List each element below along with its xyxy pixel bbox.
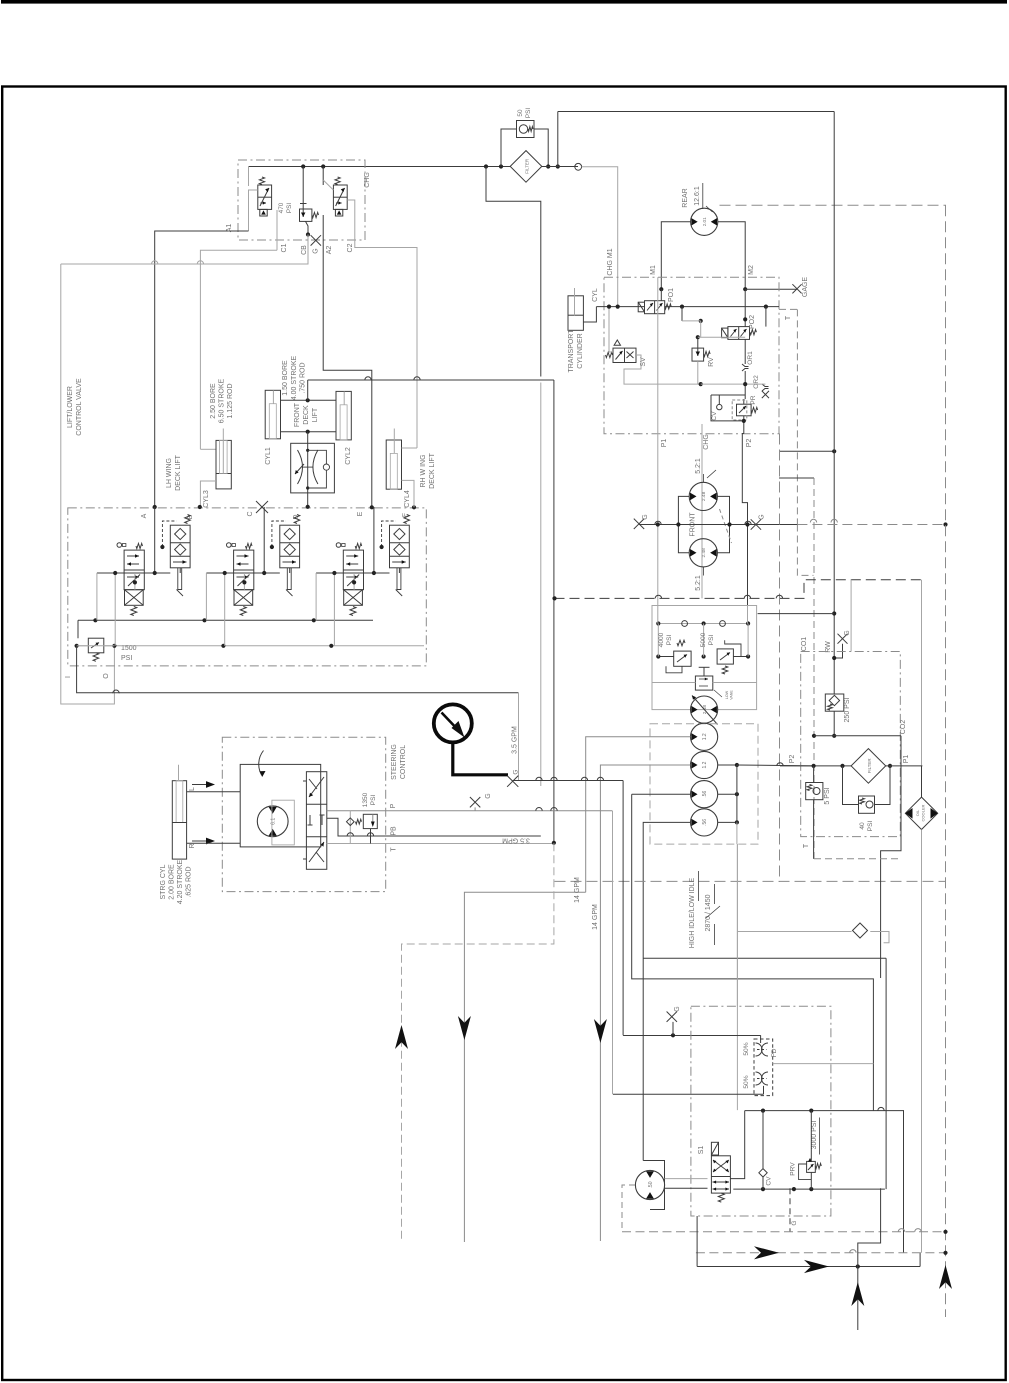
svg-text:1.2: 1.2: [702, 733, 708, 740]
arrow supply header: [754, 1246, 779, 1259]
wire pump inlet 1.2a: [586, 737, 691, 893]
arrow suction B: [594, 1019, 607, 1043]
svg-text:.56: .56: [702, 819, 708, 826]
wire idle sense line: [737, 931, 851, 933]
test point GAGE: [792, 284, 801, 293]
filter bypass 40 PSI: [843, 766, 859, 805]
motor FRONT 1: [689, 482, 717, 510]
svg-text:CONTROL: CONTROL: [400, 745, 407, 779]
spring top: [136, 543, 143, 548]
svg-text:GAGE: GAGE: [802, 277, 809, 298]
wire P out: [327, 810, 613, 812]
wire bypass loop: [501, 129, 517, 167]
svg-text:5.2:1: 5.2:1: [695, 458, 702, 474]
svg-text:6.50 STROKE: 6.50 STROKE: [219, 378, 226, 423]
wire rear motor case drain dashed: [720, 204, 947, 206]
main return filter line: [780, 765, 851, 767]
svg-text:1.125 ROD: 1.125 ROD: [227, 383, 234, 418]
wire P1 down to pumps: [657, 434, 659, 606]
wire from pump rail down: [736, 844, 738, 1006]
test point G return: [838, 634, 848, 644]
svg-text:3.5 GPM: 3.5 GPM: [502, 837, 530, 844]
node PO2 out: [743, 317, 747, 321]
svg-text:I: I: [65, 676, 72, 678]
relief rail: [658, 623, 748, 625]
wire CB down-left rail y=264: [61, 235, 308, 265]
pump gear 1.2 a: [691, 723, 718, 750]
wire FD top: [760, 1035, 762, 1043]
section wiring: [373, 507, 375, 573]
wire suction A to bottom: [464, 892, 585, 1242]
wire pump inlet .56a: [632, 793, 691, 795]
wire S1 return rail: [733, 1188, 885, 1190]
arrow L: [192, 784, 206, 786]
section wiring: [154, 507, 156, 573]
wire pump inlet 1.2b: [600, 765, 690, 1241]
node charge tap 1: [301, 164, 305, 168]
wire steering G rail H1: [513, 780, 623, 782]
dashed T return rail: [814, 858, 898, 860]
wire PRV up: [810, 1111, 812, 1162]
svg-text:.750 ROD: .750 ROD: [300, 362, 307, 393]
svg-text:LIFT: LIFT: [312, 407, 319, 422]
crossed box: [234, 590, 253, 606]
svg-text:50%: 50%: [743, 1075, 750, 1088]
pump housing box: [652, 606, 757, 710]
svg-text:3000 PSI: 3000 PSI: [811, 1121, 818, 1150]
wire P1 into housing: [657, 606, 659, 624]
wire 250 out: [833, 711, 835, 736]
check valve assembly: [390, 525, 410, 568]
arrow return line: [804, 1260, 829, 1273]
svg-text:COOLER: COOLER: [921, 804, 926, 821]
arrow right dashed riser: [939, 1265, 952, 1289]
node T x834: [832, 449, 836, 453]
svg-text:RV: RV: [708, 357, 715, 367]
svg-text:CHG M1: CHG M1: [607, 248, 614, 275]
wire OR1 down: [744, 371, 746, 399]
dashed G stub: [789, 1188, 791, 1232]
relief valve 1500 PSI: [88, 638, 104, 653]
pilot cap: [227, 543, 232, 548]
svg-text:VANE: VANE: [730, 690, 734, 700]
relief 1350 PSI assembly: [349, 811, 351, 844]
flow divider FD: [754, 1039, 773, 1096]
crossed box: [344, 590, 363, 606]
svg-text:A: A: [141, 513, 148, 518]
svg-text:14 GPM: 14 GPM: [592, 904, 599, 930]
wire cooler drop: [921, 580, 923, 766]
spring top: [246, 543, 253, 548]
ball check left: [682, 621, 688, 627]
nodes P rail: [93, 618, 97, 622]
svg-text:1350: 1350: [362, 792, 369, 807]
svg-text:470: 470: [278, 202, 285, 213]
svg-text:CO1: CO1: [801, 637, 808, 652]
wire tank drop right: [518, 693, 520, 781]
servo control: [699, 666, 710, 668]
variable arrow: [692, 696, 718, 725]
node RV top: [696, 335, 700, 339]
steering boundary: [222, 737, 385, 891]
node G bottom: [671, 1033, 675, 1037]
svg-text:PSI: PSI: [708, 635, 715, 646]
svg-text:PRV: PRV: [790, 1162, 797, 1176]
wire CYL3 feed from C1: [200, 250, 277, 449]
wire PO2 feed: [765, 307, 767, 327]
test point G gauge: [507, 776, 518, 787]
dashed boundary right x947: [945, 205, 947, 1317]
node T junction: [552, 841, 556, 845]
steering unit outer box: [240, 764, 321, 847]
gear pump box dashed: [650, 724, 758, 844]
wire top rail y=111: [558, 111, 834, 113]
node CB junction: [306, 232, 310, 236]
node front deck top: [306, 398, 310, 402]
port P1 riser: [657, 277, 659, 433]
svg-text:5000: 5000: [700, 632, 707, 647]
housing mid line: [652, 682, 695, 684]
solenoid valve body: [124, 550, 144, 590]
dashed case drain boundary x779: [779, 434, 781, 883]
svg-text:OIL: OIL: [915, 809, 920, 816]
node suction header start: [552, 596, 556, 600]
fan circuit boundary: [691, 1006, 831, 1216]
svg-text:2.00 BORE: 2.00 BORE: [169, 864, 176, 900]
node supply header: [943, 1251, 947, 1255]
node lower rail: [699, 382, 703, 386]
svg-text:CYL1: CYL1: [265, 447, 272, 465]
wire motor to valve a: [665, 1178, 708, 1180]
wire T rail y=645.5: [77, 645, 424, 647]
check out wire: [179, 568, 181, 573]
svg-text:2.48: 2.48: [701, 491, 707, 501]
flow control FC1 box: [291, 443, 335, 493]
svg-text:4000: 4000: [658, 632, 665, 647]
orifice OR1: [742, 364, 749, 367]
svg-text:CB: CB: [301, 245, 308, 255]
check CV fan: [762, 1111, 764, 1169]
wire PRV down: [810, 1172, 812, 1189]
svg-text:FILTER: FILTER: [867, 758, 872, 773]
svg-text:DECK LIFT: DECK LIFT: [429, 452, 436, 489]
dashed tank header bottom: [622, 1231, 946, 1233]
svg-text:PB: PB: [391, 826, 398, 836]
svg-text:PSI: PSI: [121, 655, 132, 662]
valve S1: [711, 1156, 730, 1193]
svg-text:CHG: CHG: [703, 434, 710, 450]
svg-text:PO1: PO1: [668, 288, 675, 302]
wire RV out: [697, 361, 699, 384]
svg-text:12.6:1: 12.6:1: [694, 186, 701, 206]
svg-text:PSI: PSI: [867, 821, 874, 832]
wire G line bottom: [623, 1035, 761, 1037]
wire C1 stub: [276, 210, 278, 250]
filter F1: [510, 151, 542, 183]
wire fan supply drop: [643, 1160, 650, 1162]
svg-text:40: 40: [859, 822, 866, 830]
transport manifold boundary: [604, 277, 779, 434]
node G dashed end: [943, 522, 947, 526]
check spring: [404, 515, 410, 524]
wire high idle loop: [632, 794, 874, 1110]
svg-text:FRONT: FRONT: [294, 402, 301, 427]
wire cooler down: [921, 830, 923, 1253]
svg-text:M2: M2: [748, 265, 755, 275]
node front deck bottom: [306, 430, 310, 434]
relief valve 470 PSI: [302, 167, 304, 210]
wire front deck bottom rail: [281, 431, 337, 433]
spring bottom: [131, 607, 137, 616]
node on charge gallery: [484, 164, 488, 168]
node charge tap 2: [321, 164, 325, 168]
wire CYL3 rod port: [200, 448, 216, 450]
ports on lift valve boundary: [153, 505, 157, 509]
svg-text:REAR: REAR: [682, 188, 689, 207]
svg-text:O: O: [103, 673, 110, 679]
wire C2 from V2: [347, 200, 417, 448]
svg-text:.56: .56: [702, 791, 708, 798]
valve PO2: [728, 327, 750, 340]
valve V2 top lead: [322, 167, 324, 186]
dashed case line right: [797, 525, 813, 576]
crossed box: [125, 590, 144, 606]
svg-text:CYL4: CYL4: [404, 490, 411, 508]
svg-text:PSI: PSI: [286, 203, 293, 214]
svg-text:PR: PR: [750, 395, 757, 404]
check out wire: [398, 568, 400, 573]
node M1: [659, 287, 663, 291]
spring S1: [718, 1193, 724, 1202]
svg-text:FD: FD: [771, 1048, 778, 1057]
svg-text:RH W ING: RH W ING: [420, 454, 427, 487]
wire bottom stub with arrow: [857, 1267, 859, 1331]
wire R line: [187, 842, 241, 844]
wire CO2 down: [881, 736, 901, 978]
wire tank out: [77, 646, 519, 693]
motor REAR 12.6:1: [691, 208, 718, 235]
wire M2 to gage: [745, 288, 797, 290]
wire charge supply drop to deck valves: [486, 167, 541, 377]
wire front crossover dashed: [720, 509, 732, 543]
wire filter to top rail: [542, 166, 578, 168]
dashed drop x814: [813, 478, 815, 859]
svg-text:T: T: [391, 847, 398, 852]
svg-text:G: G: [759, 514, 766, 519]
svg-text:2870 / 1450: 2870 / 1450: [705, 894, 712, 931]
wire rail down right: [903, 1110, 905, 1253]
wire PR down to P2: [743, 421, 745, 434]
wire motor to valve b: [665, 1187, 708, 1189]
wire T return jog: [858, 1188, 881, 1266]
quick disconnect diamond: [853, 923, 868, 938]
wire fan return loop: [643, 957, 886, 959]
svg-text:LOW: LOW: [725, 690, 729, 699]
check valve 50 PSI bypass: [517, 121, 535, 138]
wire CO2 rail: [814, 735, 901, 737]
svg-text:C1: C1: [281, 243, 288, 252]
svg-text:CONTROL VALVE: CONTROL VALVE: [76, 378, 83, 436]
pump gear .56 b: [691, 809, 718, 836]
svg-text:CYLINDER: CYLINDER: [577, 333, 584, 368]
wire qd right: [870, 932, 889, 943]
svg-text:PSI: PSI: [666, 635, 673, 646]
nodes relief rail: [656, 621, 660, 625]
wire charge gallery y=166: [249, 166, 511, 168]
solenoid valve body: [234, 550, 254, 590]
svg-text:G: G: [674, 1006, 681, 1011]
valve RV: [692, 348, 704, 361]
check 5 PSI: [813, 766, 815, 783]
svg-text:E: E: [357, 511, 364, 516]
svg-text:S1: S1: [698, 1146, 705, 1155]
svg-text:4.00 STROKE: 4.00 STROKE: [291, 355, 298, 400]
wire rail corner down to T drop: [553, 380, 555, 598]
spring bottom: [350, 607, 356, 616]
svg-text:50%: 50%: [743, 1042, 750, 1055]
nodes filter line: [812, 764, 816, 768]
wire return from T down x834: [833, 614, 835, 695]
valve PO1: [660, 289, 662, 301]
solenoid valve V1 (A1): [258, 185, 272, 209]
svg-text:P1: P1: [661, 439, 668, 448]
svg-text:PO2: PO2: [749, 315, 756, 329]
check CV: [717, 404, 722, 409]
spring top: [355, 543, 362, 548]
cylinder CYL3: [216, 440, 231, 489]
svg-text:G: G: [313, 248, 320, 253]
section wiring: [263, 507, 265, 573]
solenoid coil V1: [260, 209, 267, 216]
wire front deck to flow control: [307, 432, 309, 507]
wire front deck top rail: [281, 399, 337, 401]
test point G left front: [634, 519, 644, 529]
dashed suction header y=597: [555, 580, 922, 599]
svg-text:CHG: CHG: [364, 172, 371, 188]
gerotor motor 6:1: [257, 806, 288, 837]
solenoid coil V2: [335, 209, 342, 216]
wire filter out: [886, 765, 923, 767]
svg-text:G: G: [791, 1220, 798, 1225]
gauge stem: [453, 743, 508, 775]
wire P2 gear supply to filter: [737, 764, 814, 767]
svg-text:T: T: [785, 315, 792, 320]
wire return left riser: [696, 1216, 698, 1267]
wire front motors right loop: [717, 496, 729, 552]
wire drop to CO1 box: [850, 580, 852, 652]
wire x834 main vertical: [833, 112, 835, 614]
valve V1 leads: [249, 190, 258, 231]
check out wire: [289, 568, 291, 573]
check stem: [178, 568, 182, 590]
svg-text:PSI: PSI: [525, 108, 532, 119]
wire FD right tap: [773, 1063, 874, 1065]
check stem: [397, 568, 401, 590]
svg-text:OR2: OR2: [753, 375, 760, 389]
check valve assembly: [170, 525, 190, 568]
svg-text:DECK LIFT: DECK LIFT: [175, 454, 182, 491]
node M2: [743, 287, 747, 291]
node rail CHG: [616, 305, 620, 309]
orifice OR2: [762, 384, 769, 387]
wire left feed down: [61, 264, 115, 704]
svg-text:DECK: DECK: [303, 405, 310, 425]
page top rule: [1, 0, 1007, 4]
fan pressure rail: [745, 1110, 904, 1112]
lift valve boundary: [68, 508, 427, 666]
relief valve 5000 PSI: [717, 649, 733, 664]
wire CYL4 rod port: [402, 447, 418, 449]
svg-text:A1: A1: [226, 224, 233, 233]
wire SV loop: [609, 307, 613, 352]
deck lift manifold boundary: [238, 160, 365, 240]
arrow suction A: [458, 1016, 471, 1040]
wire G gallery dashed segment: [797, 524, 945, 526]
wire front deck feed: [307, 380, 309, 400]
svg-text:.625 ROD: .625 ROD: [186, 866, 193, 897]
svg-text:P1: P1: [903, 755, 910, 764]
pilot cap: [117, 543, 122, 548]
pump gear .56 a: [691, 781, 718, 808]
nodes T rail: [75, 644, 79, 648]
cylinder CYL4: [386, 440, 401, 489]
wire gear rail down: [736, 822, 738, 844]
gauge PG1: [434, 704, 472, 742]
svg-text:G: G: [485, 793, 492, 798]
wire front motors left loop: [678, 496, 689, 552]
svg-text:CO2: CO2: [900, 720, 907, 735]
wire FD return left: [613, 1093, 764, 1095]
relief valve 4000 PSI: [674, 651, 691, 666]
cylinder CYL2: [336, 391, 351, 440]
svg-text:4.20 STROKE: 4.20 STROKE: [177, 859, 184, 904]
motor FRONT 2: [689, 539, 717, 567]
check stem: [287, 568, 291, 590]
arrow R: [192, 840, 206, 842]
wire pump outlets right rail: [718, 764, 737, 766]
check spring: [294, 515, 300, 524]
solenoid S1 coil: [711, 1142, 718, 1155]
node filter outlet: [546, 164, 550, 168]
wire P2 into housing: [747, 606, 749, 624]
wire T drop solid lower: [553, 598, 555, 842]
check bypass in FC: [308, 450, 327, 464]
svg-text:STRG CYL: STRG CYL: [160, 864, 167, 899]
wire pump inlet .56b: [643, 822, 690, 1160]
wire CHG M1 to transport manifold: [582, 167, 618, 307]
node FC in: [306, 449, 309, 452]
svg-text:P2: P2: [789, 755, 796, 764]
wire to transport cylinder: [583, 307, 596, 322]
svg-text:5.2:1: 5.2:1: [695, 575, 702, 591]
svg-text:G: G: [513, 769, 520, 774]
fan motor bracket: [650, 1161, 665, 1210]
wire T port to x834: [779, 450, 834, 452]
cylinder STRG CYL: [172, 781, 186, 859]
test point G top: [311, 235, 321, 245]
pilot dashed: [272, 521, 286, 547]
steering spool valve: [306, 772, 326, 870]
wire pump case drain: [758, 613, 835, 615]
wire M2: [718, 222, 745, 289]
svg-text:1.2: 1.2: [702, 761, 708, 768]
svg-text:2.48: 2.48: [701, 548, 707, 558]
svg-text:.50: .50: [648, 1181, 654, 1188]
wire CYL4 bottom port: [402, 480, 415, 507]
quick disconnect at charge: [575, 163, 582, 170]
wire A1: [155, 231, 249, 507]
node tank header: [943, 1230, 947, 1234]
